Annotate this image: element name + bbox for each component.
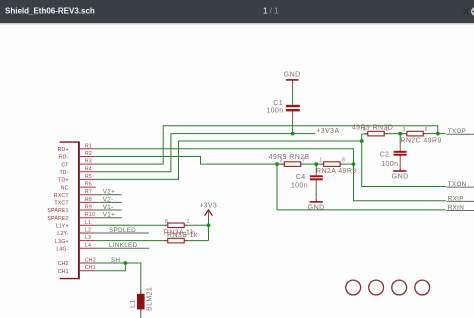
pin L1 top: [140, 290, 142, 295]
svg-text:4: 4: [363, 127, 366, 133]
+3V3 power symbol: [199, 202, 217, 216]
pin R2 stub: [80, 156, 96, 158]
svg-text:TD-: TD-: [59, 170, 68, 176]
svg-text:2: 2: [280, 158, 283, 164]
pin L1 bottom: [140, 309, 142, 313]
pin CH2 stub: [80, 262, 96, 264]
wire R10 V1+: [96, 217, 122, 219]
svg-text:L1: L1: [85, 220, 91, 226]
ground for C1: [284, 71, 301, 82]
svg-text:CH1: CH1: [85, 265, 96, 271]
svg-text:R10: R10: [85, 212, 95, 218]
capacitor C2: [394, 152, 407, 155]
net labels (grey-green): [103, 128, 467, 264]
resistor RN3B: [165, 238, 188, 243]
wire R1 net to RXIP: [96, 149, 446, 201]
connector J1 body bar: [78, 142, 80, 280]
svg-text:V1-: V1-: [103, 204, 114, 211]
pin R4 stub: [80, 171, 96, 173]
resistor RN2D: [365, 131, 388, 136]
svg-text:RD-: RD-: [59, 155, 69, 161]
wire RN2D to RN2C with C2 tap: [384, 133, 407, 135]
svg-text:8: 8: [165, 219, 168, 225]
pin C2 top: [399, 144, 401, 152]
capacitor C4: [310, 176, 323, 179]
svg-text:L1Y+: L1Y+: [56, 224, 69, 230]
junction C1/+3V3A: [291, 132, 295, 136]
resistor RN2C: [404, 131, 427, 136]
svg-text:V2+: V2+: [103, 189, 115, 196]
pin R6 stub: [80, 186, 96, 188]
wire RN2B to RN2A row segment: [301, 163, 324, 165]
svg-text:7: 7: [302, 158, 305, 164]
resistor RN2A: [320, 162, 343, 167]
wire R4 net +3V3A: [96, 134, 316, 172]
wire R8 V2-: [96, 201, 122, 203]
wire R9 V1-: [96, 209, 122, 211]
pin stubs (red): [80, 149, 96, 271]
pin L1 stub: [80, 224, 96, 226]
svg-text:L1: L1: [129, 299, 136, 308]
label underlines: [447, 134, 474, 210]
junction C2 tap: [398, 132, 402, 136]
wire R5 net: [96, 141, 362, 179]
wire L4 LINKLED: [96, 247, 150, 249]
svg-text:SPDLED: SPDLED: [109, 227, 136, 234]
svg-text:1: 1: [187, 219, 190, 225]
svg-text:100n: 100n: [381, 161, 398, 168]
svg-text:R6: R6: [85, 182, 92, 188]
wire below ferrite L1: [140, 309, 142, 318]
pin C1 top: [292, 81, 294, 90]
pin C4 gnd stem: [315, 194, 317, 202]
pin C1 bottom: [292, 111, 294, 119]
svg-text:CH2: CH2: [85, 258, 96, 264]
underline RXIN: [447, 210, 474, 212]
wire RN2C right to TXOP: [423, 133, 446, 135]
svg-text:NC: NC: [61, 185, 69, 191]
svg-text:C4: C4: [296, 174, 306, 181]
underline RXIP: [447, 200, 474, 202]
ferrite bead L1: [137, 294, 145, 310]
svg-text:L4G-: L4G-: [56, 247, 68, 253]
svg-text:8: 8: [342, 158, 345, 164]
pin R1 stub: [80, 148, 96, 150]
svg-text:L3: L3: [85, 235, 91, 241]
wire L2 SPDLED: [96, 232, 149, 234]
svg-text:R4: R4: [85, 166, 92, 172]
wire CH1 up to SH node: [96, 263, 126, 271]
junction SH node: [124, 261, 128, 265]
hole H1: [346, 280, 361, 295]
wire L3 to RN3B: [96, 240, 168, 242]
svg-text:R8: R8: [85, 197, 92, 203]
wire C1 to +3V3A line: [292, 118, 294, 134]
svg-text:SPARE1: SPARE1: [47, 208, 68, 214]
svg-text:TXCT: TXCT: [54, 201, 69, 207]
connector pin names (left): [47, 147, 69, 275]
svg-text:1: 1: [319, 158, 322, 164]
svg-text:RN2A 49R9: RN2A 49R9: [316, 168, 357, 175]
svg-text:R1: R1: [85, 143, 92, 149]
svg-text:CT: CT: [61, 162, 69, 168]
junction R5/RN2D/TXON: [360, 139, 364, 143]
wire RN3B to +3V3 vertical: [184, 240, 208, 242]
svg-text:TD+: TD+: [58, 178, 69, 184]
junction TXOP node: [436, 132, 440, 136]
wire CH2 SH to ferrite: [96, 263, 141, 294]
svg-text:L4: L4: [85, 243, 91, 249]
svg-text:6: 6: [425, 127, 428, 133]
svg-text:SPARE2: SPARE2: [47, 216, 68, 222]
wires (green): [96, 88, 446, 318]
svg-text:R5: R5: [85, 174, 92, 180]
pin C4 bottom: [315, 180, 317, 188]
circle button right edge: [471, 7, 474, 16]
pin L4 stub: [80, 247, 96, 249]
underline TXON: [447, 186, 474, 188]
wire +3V3 stem down: [208, 216, 210, 241]
pin R3 stub: [80, 163, 96, 165]
wire R7 V2+: [96, 194, 122, 196]
svg-text:L2: L2: [85, 228, 91, 234]
junction RN2A right: [352, 162, 356, 166]
junction RN3A right: [207, 223, 211, 227]
svg-text:LINKLED: LINKLED: [109, 242, 138, 249]
svg-text:R2: R2: [85, 151, 92, 157]
svg-text:5: 5: [386, 127, 389, 133]
pin R10 stub: [80, 217, 96, 219]
svg-text:R9: R9: [85, 205, 92, 211]
svg-text:+3V3A: +3V3A: [316, 128, 339, 135]
connector pad labels (right of bar): [85, 143, 96, 271]
svg-text:V2-: V2-: [103, 196, 114, 203]
hole H2: [369, 280, 384, 295]
pin C2 bottom: [399, 156, 401, 171]
svg-text:RN3B 1k: RN3B 1k: [167, 232, 198, 239]
junction RN2B left: [275, 162, 279, 166]
svg-text:GND: GND: [284, 71, 301, 78]
wire C2 top: [399, 134, 401, 144]
pin C4 top: [315, 169, 317, 176]
mounting holes: [346, 280, 430, 295]
svg-text:100n: 100n: [266, 107, 283, 114]
pin CH1 stub: [80, 270, 96, 272]
resistor RN3A: [165, 223, 188, 228]
svg-text:1 / 1: 1 / 1: [263, 6, 279, 15]
junction C4 tap: [314, 162, 318, 166]
svg-text:R7: R7: [85, 189, 92, 195]
resistor pin numbers: [165, 127, 428, 225]
connector J1 bottom cap: [60, 278, 80, 280]
pin R9 stub: [80, 209, 96, 211]
svg-text:GND: GND: [308, 205, 325, 212]
wire L1 to RN3A: [96, 224, 168, 226]
svg-text:CH2: CH2: [58, 261, 69, 267]
wire C1 to GND: [292, 88, 294, 105]
svg-text:GND: GND: [392, 174, 409, 181]
resistor RN2B: [281, 162, 304, 167]
svg-text:3: 3: [402, 127, 405, 133]
svg-text:L3G+: L3G+: [55, 239, 69, 245]
svg-text:C1: C1: [273, 100, 283, 107]
wire R2 net jog to RN2B row: [96, 157, 284, 165]
svg-text:Shield_Eth06-REV3.sch: Shield_Eth06-REV3.sch: [5, 7, 95, 16]
pin L2 stub: [80, 232, 96, 234]
svg-text:+3V3: +3V3: [199, 202, 217, 209]
wire RN3A to +3V3 vertical: [184, 224, 208, 226]
svg-text:RXCT: RXCT: [54, 193, 70, 199]
hole H3: [392, 280, 407, 295]
svg-text:R3: R3: [85, 159, 92, 165]
wire C4 middle: [315, 187, 317, 195]
wire C4 top: [315, 164, 317, 169]
pin R8 stub: [80, 201, 96, 203]
ground for C4: [308, 199, 325, 211]
close icon: [464, 8, 470, 15]
svg-text:100n: 100n: [291, 183, 308, 190]
underline TXOP: [447, 133, 474, 135]
svg-text:BLM21: BLM21: [147, 287, 154, 311]
hole H4: [415, 280, 430, 295]
wire RN2D left to R5 dot: [362, 134, 446, 187]
wire RXIN from RN2B left: [277, 164, 446, 210]
pin L3 stub: [80, 240, 96, 242]
svg-text:L2Y-: L2Y-: [57, 231, 68, 237]
ground for C2: [392, 168, 409, 180]
wire R3 net top line to TXOP node: [96, 126, 438, 164]
capacitor C1: [286, 106, 300, 110]
capacitor pin wires (red): [141, 81, 400, 314]
svg-text:RN2C 49R9: RN2C 49R9: [400, 137, 441, 144]
pin R7 stub: [80, 194, 96, 196]
pin R5 stub: [80, 178, 96, 180]
svg-text:RD+: RD+: [58, 147, 69, 153]
connector J1 top cap: [60, 141, 80, 143]
svg-text:V1+: V1+: [103, 212, 115, 219]
svg-text:CH1: CH1: [58, 269, 69, 275]
top bar: [0, 0, 474, 23]
svg-text:C2: C2: [380, 151, 390, 158]
svg-text:SH: SH: [111, 257, 120, 264]
wire RN2A right to R1 vertical: [340, 163, 354, 165]
component labels (grey-red): [164, 100, 442, 239]
